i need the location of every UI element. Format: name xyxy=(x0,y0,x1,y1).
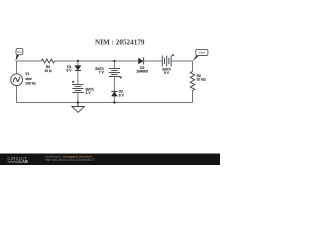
diode D1 (8 V) xyxy=(67,65,81,73)
wire left vertical lower: V1 bottom to bottom rail xyxy=(16,86,18,103)
logo capacitor + LAB xyxy=(17,159,28,164)
diode D2 (8 V) xyxy=(111,90,124,98)
svg-text:7 V: 7 V xyxy=(99,70,105,74)
node junction at D1 branch xyxy=(77,60,79,62)
svg-text:1 V: 1 V xyxy=(86,91,92,95)
svg-text:9 V: 9 V xyxy=(164,71,170,75)
logo resistor zigzag xyxy=(8,161,18,163)
voltage source V1 (sine 100 Hz) xyxy=(11,72,36,86)
wire right vertical lower: R2 to bottom rail xyxy=(192,91,194,103)
svg-text:1N4005: 1N4005 xyxy=(136,69,148,73)
svg-text:http://circuitlab.com/c4r3d3be: http://circuitlab.com/c4r3d3bed817f xyxy=(45,158,95,162)
wire D1 to BAT1 lead xyxy=(77,71,79,85)
wire BAT2 branch top lead xyxy=(113,61,115,69)
battery BAT3 (9 V) xyxy=(162,54,174,75)
node junction at BAT2 branch xyxy=(113,60,115,62)
wire top rail: D3 to BAT3 xyxy=(144,60,163,62)
footer bar xyxy=(0,154,220,166)
ground symbol xyxy=(72,103,85,113)
resistor R2 (10 kΩ) xyxy=(190,71,206,90)
wire BAT2 to D2 lead xyxy=(113,77,115,92)
wire D1 branch top lead xyxy=(77,61,79,66)
svg-text:10 Ω: 10 Ω xyxy=(44,69,52,73)
wire right vertical upper: Vout corner to R2 xyxy=(192,61,194,71)
wire D2 to bottom rail lead xyxy=(113,96,115,102)
svg-text:sine: sine xyxy=(25,77,32,81)
wire bottom rail xyxy=(17,102,193,104)
wire top rail: Vin corner to R3 xyxy=(17,60,42,62)
wire BAT1 to bottom rail lead xyxy=(77,93,79,103)
flag Vin xyxy=(15,49,23,62)
svg-text:8 V: 8 V xyxy=(67,68,73,72)
svg-text:NIM : 20524179: NIM : 20524179 xyxy=(95,39,145,47)
wire left vertical upper: Vin corner to V1 top xyxy=(16,61,18,74)
svg-text:Vout: Vout xyxy=(199,51,205,55)
svg-text:Vin: Vin xyxy=(17,50,22,54)
node junction BAT1 at bottom rail xyxy=(77,101,79,103)
battery BAT2 (7 V) xyxy=(95,67,121,79)
wire top rail: BAT3 to Vout corner xyxy=(171,60,192,62)
flag Vout xyxy=(192,49,208,61)
svg-text:LAB: LAB xyxy=(19,159,27,164)
resistor R3 (10 Ω) xyxy=(41,59,54,73)
battery BAT1 (1 V) xyxy=(72,81,94,95)
wire top rail: R3 to D3 xyxy=(55,60,139,62)
svg-text:10 kΩ: 10 kΩ xyxy=(197,78,206,82)
svg-text:V1: V1 xyxy=(25,72,29,76)
node junction BAT2 branch at bottom rail xyxy=(113,101,115,103)
diode D3 (1N4005) xyxy=(136,57,148,73)
svg-text:8 V: 8 V xyxy=(119,93,125,97)
svg-text:100 Hz: 100 Hz xyxy=(25,82,36,86)
